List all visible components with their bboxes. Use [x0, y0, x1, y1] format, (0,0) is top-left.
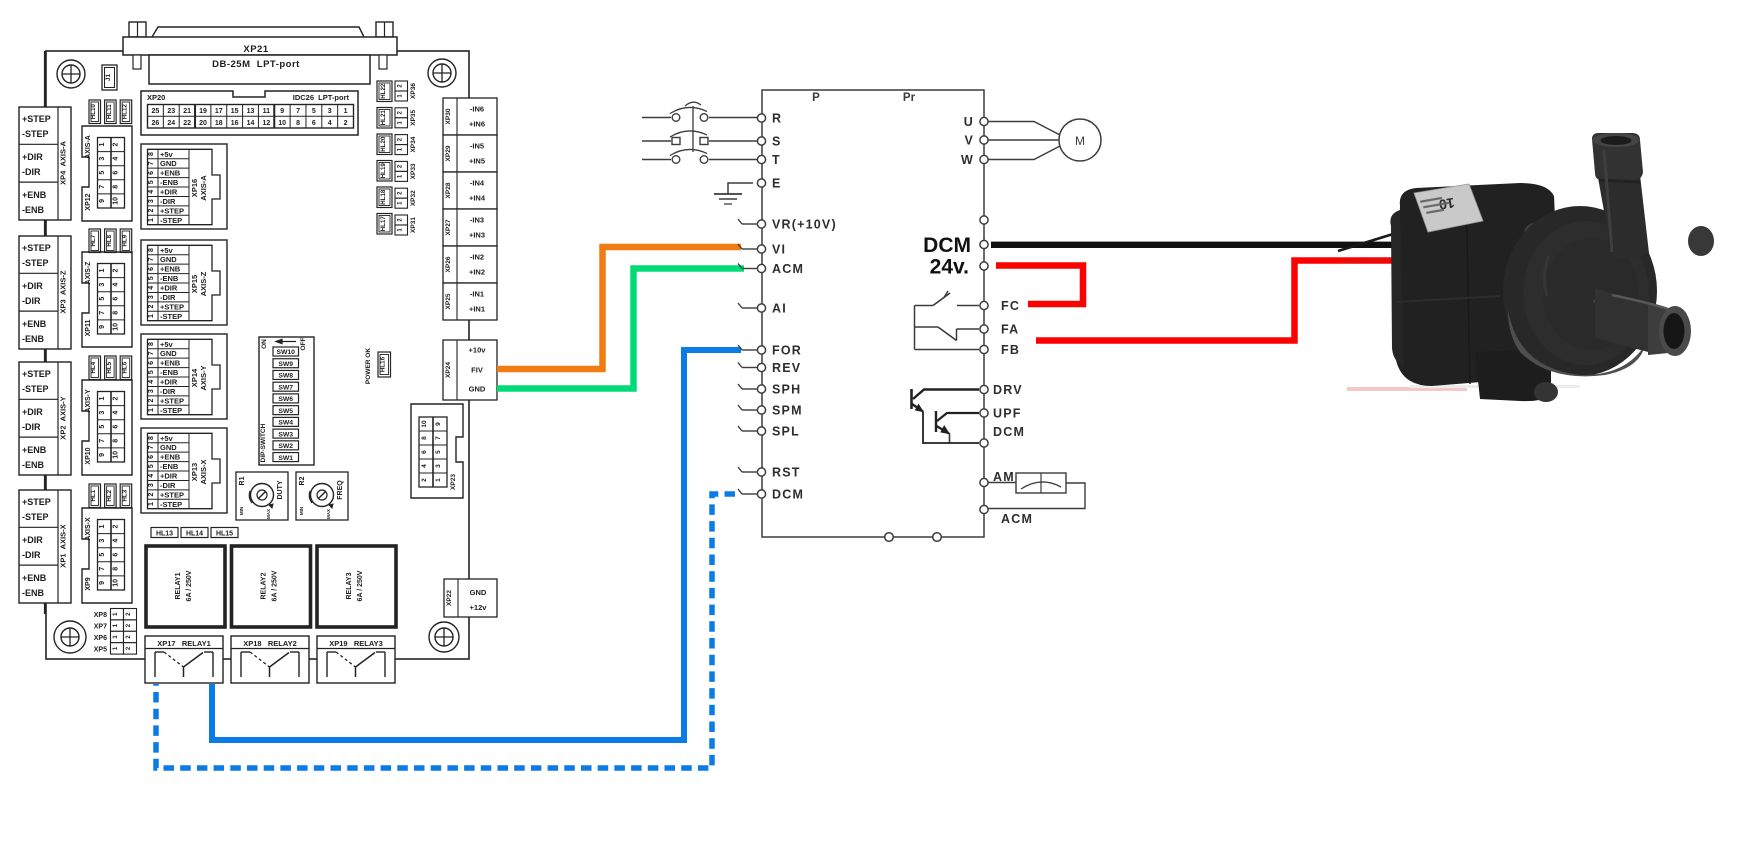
svg-text:XP3 AXIS-Z: XP3 AXIS-Z	[59, 270, 68, 313]
LED HL8	[105, 229, 117, 253]
svg-text:3: 3	[99, 157, 106, 161]
connector XP26 inputs	[443, 246, 497, 283]
svg-text:XP15: XP15	[190, 275, 199, 293]
svg-text:HL14: HL14	[186, 531, 203, 538]
relay RELAY3	[317, 546, 396, 627]
svg-text:GND: GND	[160, 349, 177, 358]
svg-text:HL15: HL15	[216, 531, 233, 538]
svg-text:-IN2: -IN2	[470, 253, 484, 262]
connector XP35	[395, 108, 417, 128]
VFD terminal DCM	[738, 488, 804, 502]
svg-text:7: 7	[148, 445, 155, 449]
svg-text:+ENB: +ENB	[160, 453, 181, 462]
LED HL7	[89, 229, 101, 253]
connector XP25 inputs	[443, 283, 497, 320]
svg-text:R1: R1	[239, 476, 246, 485]
svg-text:VR(+10V): VR(+10V)	[772, 218, 837, 232]
svg-text:MIN: MIN	[239, 507, 244, 515]
svg-text:+ENB: +ENB	[160, 169, 181, 178]
svg-text:3: 3	[99, 539, 106, 543]
pump body seams	[1466, 186, 1470, 384]
VFD terminal REV	[738, 361, 801, 375]
svg-text:-ENB: -ENB	[160, 274, 179, 283]
terminal block XP4 AXIS-A	[19, 107, 71, 220]
svg-text:3: 3	[99, 283, 106, 287]
three-phase disconnect switch	[642, 102, 758, 163]
jumper J1	[102, 65, 117, 90]
VFD terminal UPF	[980, 407, 1022, 421]
svg-text:+DIR: +DIR	[22, 407, 43, 417]
connector XP36	[395, 81, 417, 101]
water pump photo	[1338, 133, 1714, 402]
svg-text:2: 2	[148, 493, 155, 497]
open collector transistor UPF	[936, 411, 979, 443]
svg-text:HL20: HL20	[380, 136, 387, 152]
svg-text:+STEP: +STEP	[22, 243, 51, 253]
svg-text:HL21: HL21	[380, 110, 387, 126]
svg-text:RST: RST	[772, 466, 801, 480]
svg-text:HL19: HL19	[380, 163, 387, 179]
svg-text:+DIR: +DIR	[22, 535, 43, 545]
svg-text:HL11: HL11	[106, 104, 113, 119]
svg-text:-ENB: -ENB	[160, 368, 179, 377]
svg-text:HL17: HL17	[380, 216, 387, 232]
svg-text:1: 1	[148, 502, 155, 506]
VFD terminal E	[757, 177, 781, 191]
VFD terminal RST	[738, 466, 801, 480]
svg-text:-STEP: -STEP	[22, 512, 49, 522]
svg-text:5: 5	[99, 171, 106, 175]
svg-text:6: 6	[421, 450, 428, 454]
svg-text:UPF: UPF	[993, 407, 1022, 421]
svg-text:8: 8	[296, 120, 300, 127]
svg-text:GND: GND	[160, 255, 177, 264]
LED HL1	[89, 484, 101, 508]
svg-text:5: 5	[435, 450, 442, 454]
svg-text:-IN3: -IN3	[470, 216, 484, 225]
svg-text:XP14: XP14	[190, 368, 199, 387]
connector XP31	[395, 215, 417, 235]
svg-text:HL4: HL4	[90, 361, 97, 373]
LED HL5	[105, 356, 117, 380]
LED HL14	[181, 528, 208, 538]
VFD terminal SPH	[738, 383, 801, 397]
svg-text:SW3: SW3	[278, 431, 293, 438]
svg-text:-DIR: -DIR	[160, 293, 176, 302]
VFD terminal DCM 24V output	[923, 234, 988, 257]
svg-text:RELAY3: RELAY3	[346, 572, 353, 599]
pump volute head	[1503, 206, 1657, 376]
wire orange FIV to VI	[497, 247, 741, 369]
svg-text:FIV: FIV	[471, 366, 483, 375]
svg-text:6A / 250V: 6A / 250V	[186, 570, 193, 601]
LED HL18	[377, 187, 392, 208]
VFD terminal unlabeled	[980, 216, 988, 224]
fault relay contact FC FA FB	[915, 291, 980, 350]
connectors XP8 XP7 XP6 XP5	[94, 609, 137, 655]
svg-text:+ENB: +ENB	[22, 445, 47, 455]
svg-text:11: 11	[263, 108, 271, 115]
terminal block XP2 AXIS-Y	[19, 362, 71, 475]
VFD terminal VI	[738, 243, 786, 257]
VFD terminal R	[757, 112, 782, 126]
svg-text:HL9: HL9	[121, 234, 128, 246]
svg-text:+ENB: +ENB	[22, 573, 47, 583]
svg-text:4: 4	[148, 286, 155, 290]
svg-text:XP18 RELAY2: XP18 RELAY2	[243, 639, 297, 648]
svg-text:SPM: SPM	[772, 404, 803, 418]
svg-text:MAX: MAX	[266, 509, 271, 519]
svg-text:7: 7	[99, 439, 106, 443]
VFD terminal U	[964, 115, 988, 129]
pump foot	[1475, 349, 1551, 401]
svg-text:4: 4	[113, 539, 120, 543]
svg-text:SW10: SW10	[276, 349, 295, 356]
svg-text:-DIR: -DIR	[160, 481, 176, 490]
svg-text:VI: VI	[772, 243, 786, 257]
terminal block XP3 AXIS-Z	[19, 236, 71, 349]
svg-text:+STEP: +STEP	[22, 369, 51, 379]
svg-text:RELAY1: RELAY1	[175, 572, 182, 599]
svg-text:HL6: HL6	[121, 361, 128, 373]
svg-text:10: 10	[113, 579, 120, 587]
svg-text:10: 10	[113, 197, 120, 205]
svg-text:1: 1	[99, 524, 106, 528]
svg-text:3: 3	[148, 295, 155, 299]
svg-text:XP21: XP21	[243, 44, 268, 55]
LED HL6	[120, 356, 132, 380]
svg-text:4: 4	[328, 120, 332, 127]
svg-text:+DIR: +DIR	[160, 284, 178, 293]
svg-text:10: 10	[113, 451, 120, 459]
svg-text:2: 2	[113, 142, 120, 146]
svg-text:9: 9	[99, 453, 106, 457]
VFD terminal AM	[980, 470, 1015, 487]
svg-text:22: 22	[183, 120, 191, 127]
svg-text:-IN4: -IN4	[470, 179, 485, 188]
svg-text:HL2: HL2	[106, 489, 113, 501]
svg-text:-ENB: -ENB	[160, 462, 179, 471]
svg-text:U: U	[964, 115, 974, 129]
svg-text:7: 7	[148, 161, 155, 165]
svg-text:25: 25	[152, 108, 160, 115]
svg-text:HL13: HL13	[156, 531, 173, 538]
svg-text:XP30: XP30	[445, 108, 452, 124]
svg-text:MAX: MAX	[326, 509, 331, 519]
pump lead wire black	[1338, 231, 1403, 251]
pump motor body	[1396, 183, 1560, 386]
pump shadow artifact	[1347, 387, 1467, 391]
svg-text:XP12: XP12	[85, 193, 92, 210]
svg-text:5: 5	[99, 553, 106, 557]
svg-text:+10v: +10v	[469, 346, 487, 355]
svg-text:XP7: XP7	[94, 624, 107, 631]
motor M	[988, 119, 1101, 161]
svg-text:-DIR: -DIR	[160, 387, 176, 396]
svg-text:XP9: XP9	[85, 577, 92, 590]
connector XP30 inputs	[443, 98, 497, 135]
svg-text:2: 2	[148, 399, 155, 403]
svg-text:XP34: XP34	[410, 136, 417, 152]
VFD terminal S	[757, 135, 781, 149]
connector XP24 +10v FIV GND	[443, 340, 497, 400]
svg-text:6: 6	[148, 361, 155, 365]
svg-text:6: 6	[148, 267, 155, 271]
connector XP21 DB-25M LPT-port	[123, 22, 397, 84]
svg-text:1: 1	[344, 108, 348, 115]
svg-text:19: 19	[199, 108, 207, 115]
svg-text:HL5: HL5	[106, 361, 113, 373]
svg-text:14: 14	[247, 120, 255, 127]
svg-text:DCM: DCM	[772, 488, 804, 502]
svg-text:AXIS-Y: AXIS-Y	[199, 365, 208, 390]
svg-text:+IN6: +IN6	[469, 120, 485, 129]
VFD terminal ACM analog	[980, 505, 1033, 526]
svg-text:XP19 RELAY3: XP19 RELAY3	[329, 639, 383, 648]
VFD terminal FC	[980, 299, 1020, 313]
VFD enclosure	[762, 90, 984, 537]
svg-text:4: 4	[113, 283, 120, 287]
svg-text:REV: REV	[772, 361, 801, 375]
svg-text:+ENB: +ENB	[22, 319, 47, 329]
svg-text:GND: GND	[160, 159, 177, 168]
svg-text:XP31: XP31	[410, 217, 417, 233]
svg-text:E: E	[772, 177, 782, 191]
svg-text:FOR: FOR	[772, 344, 802, 358]
LED HL22	[377, 81, 392, 102]
svg-text:+DIR: +DIR	[160, 472, 178, 481]
svg-text:ACM: ACM	[772, 262, 804, 276]
LED HL4	[89, 356, 101, 380]
svg-text:XP24: XP24	[445, 362, 452, 378]
svg-text:26: 26	[152, 120, 160, 127]
svg-text:HL22: HL22	[380, 83, 387, 99]
svg-text:SW7: SW7	[278, 384, 293, 391]
connector XP27 inputs	[443, 209, 497, 246]
svg-text:XP23: XP23	[450, 474, 457, 490]
connector XP18 RELAY2	[231, 636, 309, 683]
svg-text:+STEP: +STEP	[160, 490, 184, 499]
svg-text:9: 9	[99, 581, 106, 585]
svg-text:SPL: SPL	[772, 425, 800, 439]
svg-text:OFF: OFF	[300, 337, 307, 350]
svg-text:+IN1: +IN1	[469, 305, 485, 314]
svg-text:XP29: XP29	[445, 145, 452, 161]
svg-text:+5v: +5v	[160, 434, 174, 443]
ground symbol at E	[714, 183, 753, 204]
svg-text:+DIR: +DIR	[160, 188, 178, 197]
svg-text:1: 1	[435, 478, 442, 482]
connector XP17 RELAY1	[145, 636, 223, 683]
svg-text:7: 7	[296, 108, 300, 115]
svg-text:7: 7	[99, 185, 106, 189]
svg-text:M: M	[1075, 134, 1085, 148]
svg-text:+5v: +5v	[160, 150, 174, 159]
svg-text:6: 6	[113, 425, 120, 429]
svg-text:DRV: DRV	[993, 383, 1023, 397]
svg-text:-DIR: -DIR	[22, 167, 41, 177]
svg-text:8: 8	[148, 436, 155, 440]
svg-text:+IN5: +IN5	[469, 157, 485, 166]
connector XP28 inputs	[443, 172, 497, 209]
LED HL9	[120, 229, 132, 253]
svg-text:8: 8	[421, 436, 428, 440]
svg-text:XP20: XP20	[147, 93, 165, 102]
svg-text:6A / 250V: 6A / 250V	[272, 570, 279, 601]
svg-text:-IN5: -IN5	[470, 142, 484, 151]
svg-text:2: 2	[344, 120, 348, 127]
svg-text:R: R	[772, 112, 782, 126]
svg-text:SW8: SW8	[278, 373, 293, 380]
svg-text:XP27: XP27	[445, 219, 452, 235]
svg-text:1: 1	[148, 314, 155, 318]
connector XP29 inputs	[443, 135, 497, 172]
VFD terminal SPM	[738, 404, 803, 418]
svg-text:XP36: XP36	[410, 83, 417, 99]
svg-text:GND: GND	[469, 385, 486, 394]
svg-text:HL10: HL10	[90, 104, 97, 120]
svg-text:XP22: XP22	[446, 590, 453, 606]
svg-text:AXIS-X: AXIS-X	[199, 459, 208, 484]
VFD terminal T	[757, 153, 780, 167]
svg-text:+STEP: +STEP	[160, 396, 184, 405]
screw hole top-right	[428, 59, 456, 87]
LED HL16 POWER OK	[365, 348, 391, 384]
connector XP16 AXIS-A	[141, 144, 227, 229]
svg-text:15: 15	[231, 108, 239, 115]
svg-text:5: 5	[312, 108, 316, 115]
svg-text:5: 5	[99, 297, 106, 301]
svg-text:XP13: XP13	[190, 463, 199, 481]
svg-text:4: 4	[113, 157, 120, 161]
svg-text:1: 1	[99, 268, 106, 272]
svg-text:AXIS-A: AXIS-A	[199, 175, 208, 201]
svg-text:18: 18	[215, 120, 223, 127]
svg-text:FB: FB	[1001, 343, 1020, 357]
svg-text:23: 23	[167, 108, 175, 115]
connector XP10 AXIS-Y	[82, 380, 132, 475]
VFD terminal FB	[980, 343, 1020, 357]
open collector transistor DRV	[912, 389, 980, 412]
svg-text:SW4: SW4	[278, 420, 293, 427]
svg-text:DUTY: DUTY	[277, 480, 284, 499]
svg-text:21: 21	[183, 108, 191, 115]
breakout board outline	[46, 51, 469, 659]
VFD terminal AI	[738, 302, 787, 316]
svg-text:20: 20	[199, 120, 207, 127]
svg-text:3: 3	[435, 464, 442, 468]
bottom edge terminals	[885, 533, 942, 542]
svg-text:6A / 250V: 6A / 250V	[357, 570, 364, 601]
svg-text:3: 3	[148, 389, 155, 393]
svg-text:10: 10	[278, 120, 286, 127]
svg-text:XP32: XP32	[410, 190, 417, 206]
svg-text:+STEP: +STEP	[22, 497, 51, 507]
svg-text:3: 3	[148, 483, 155, 487]
svg-text:2: 2	[148, 305, 155, 309]
pump outlet spout	[1595, 288, 1656, 354]
LED HL3	[120, 484, 132, 508]
LED HL15	[211, 528, 238, 538]
connector XP22 GND +12v	[444, 579, 497, 617]
svg-text:+IN3: +IN3	[469, 231, 485, 240]
VFD terminal 24v	[930, 256, 988, 279]
svg-text:AI: AI	[772, 302, 787, 316]
svg-text:SPH: SPH	[772, 383, 801, 397]
svg-text:HL16: HL16	[380, 356, 387, 372]
svg-text:1: 1	[99, 396, 106, 400]
connector XP20 IDC26 LPT-port	[141, 91, 358, 135]
terminal block XP1 AXIS-X	[19, 490, 71, 603]
svg-text:-ENB: -ENB	[22, 460, 44, 470]
svg-text:7: 7	[435, 436, 442, 440]
connector XP32	[395, 188, 417, 208]
svg-text:XP6: XP6	[94, 635, 107, 642]
svg-text:5: 5	[148, 464, 155, 468]
svg-text:8: 8	[113, 567, 120, 571]
meter on AM output	[988, 473, 1085, 509]
relay RELAY2	[232, 546, 311, 627]
svg-text:2: 2	[421, 478, 428, 482]
screw hole bottom-right	[429, 622, 459, 652]
svg-text:-ENB: -ENB	[22, 588, 44, 598]
svg-text:2: 2	[113, 268, 120, 272]
svg-text:1: 1	[99, 142, 106, 146]
svg-text:+ENB: +ENB	[160, 265, 181, 274]
svg-text:-DIR: -DIR	[22, 296, 41, 306]
svg-text:DIP-SWITCH: DIP-SWITCH	[260, 423, 267, 462]
svg-text:7: 7	[148, 351, 155, 355]
svg-text:SW5: SW5	[278, 408, 293, 415]
svg-text:SW1: SW1	[278, 455, 293, 462]
VFD terminal FOR	[738, 344, 802, 358]
svg-text:7: 7	[148, 257, 155, 261]
svg-text:+STEP: +STEP	[22, 114, 51, 124]
svg-text:4: 4	[148, 380, 155, 384]
LED HL10	[89, 100, 101, 124]
VFD terminal FA	[980, 323, 1019, 337]
svg-text:16: 16	[231, 120, 239, 127]
svg-text:-IN1: -IN1	[470, 290, 484, 299]
pump inlet tube	[1597, 172, 1649, 258]
svg-text:1: 1	[148, 218, 155, 222]
svg-text:4: 4	[113, 411, 120, 415]
svg-text:8: 8	[113, 311, 120, 315]
svg-text:4: 4	[421, 464, 428, 468]
wire red 24v to FC	[996, 266, 1083, 305]
pump mounting ear top	[1524, 222, 1552, 244]
svg-text:-STEP: -STEP	[160, 216, 182, 225]
svg-text:+DIR: +DIR	[22, 281, 43, 291]
svg-text:2: 2	[148, 209, 155, 213]
svg-text:AXIS-Z: AXIS-Z	[199, 271, 208, 296]
svg-text:+ENB: +ENB	[22, 190, 47, 200]
svg-text:XP35: XP35	[410, 109, 417, 125]
svg-text:ON: ON	[261, 339, 268, 349]
connector XP14 AXIS-Y	[141, 334, 227, 419]
svg-text:-DIR: -DIR	[160, 197, 176, 206]
svg-text:XP26: XP26	[445, 256, 452, 272]
svg-text:-ENB: -ENB	[22, 205, 44, 215]
svg-text:2: 2	[113, 396, 120, 400]
connector XP19 RELAY3	[317, 636, 395, 683]
svg-text:17: 17	[215, 108, 223, 115]
svg-text:-IN6: -IN6	[470, 105, 484, 114]
connector XP11 AXIS-Z	[82, 252, 132, 347]
svg-text:FA: FA	[1001, 323, 1019, 337]
svg-text:Pr: Pr	[903, 92, 916, 104]
wire blue dashed DCM to XP17 relay	[156, 494, 735, 768]
